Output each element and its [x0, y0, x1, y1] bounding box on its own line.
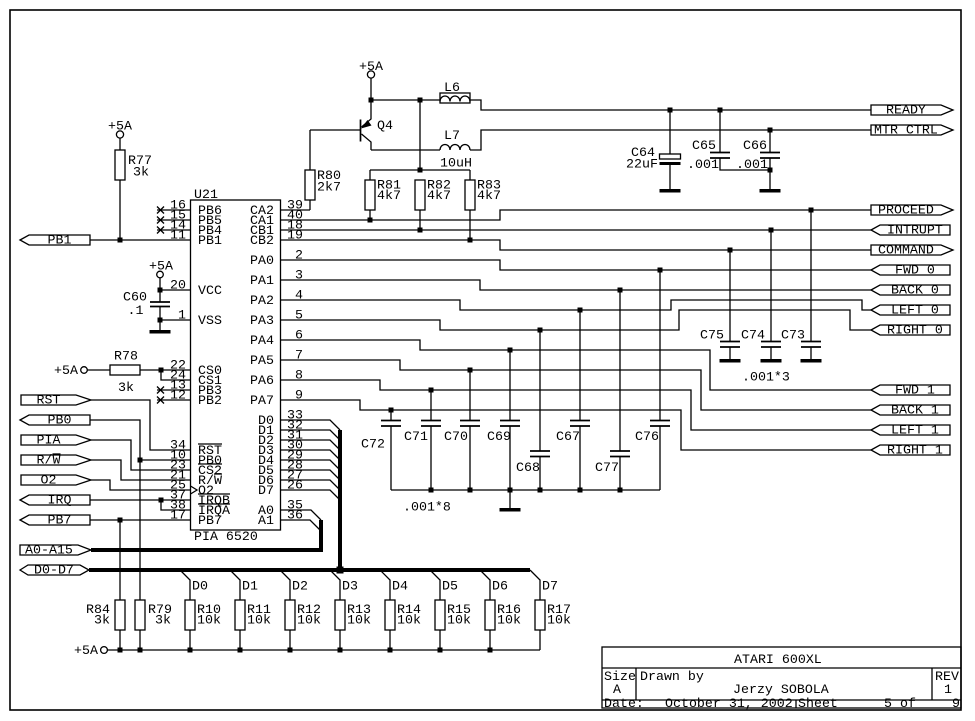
svg-text:PB2: PB2 [198, 393, 222, 408]
svg-text:.001*3: .001*3 [742, 370, 790, 385]
svg-text:9: 9 [952, 696, 960, 711]
svg-text:Date:: Date: [604, 696, 644, 711]
svg-text:17: 17 [170, 508, 186, 523]
svg-text:5: 5 [295, 308, 303, 323]
svg-text:FWD 0: FWD 0 [895, 263, 935, 278]
svg-text:A: A [613, 682, 621, 697]
flag PROCEED [871, 203, 953, 218]
svg-text:2: 2 [295, 248, 303, 263]
svg-text:ATARI 600XL: ATARI 600XL [734, 652, 822, 667]
svg-text:C75: C75 [700, 328, 724, 343]
wire IRQ to pin37 pin38 [90, 498, 191, 511]
svg-text:4k7: 4k7 [377, 188, 401, 203]
svg-text:U21: U21 [194, 187, 218, 202]
wire R78 to CS0 pin22 and CS1 pin24 [140, 368, 191, 381]
svg-text:+5A: +5A [359, 59, 383, 74]
flag RIGHT 0 [871, 323, 950, 338]
U21 left pin names and numbers [170, 198, 230, 529]
wire D7 pin26 to bus [281, 490, 341, 500]
svg-text:RIGHT 0: RIGHT 0 [887, 323, 943, 338]
ground C73 [801, 359, 822, 363]
wire L7 to MTR CTRL [470, 130, 871, 150]
svg-text:C71: C71 [404, 429, 428, 444]
svg-text:PA3: PA3 [250, 313, 274, 328]
svg-text:1: 1 [178, 308, 186, 323]
capacitor C65 [687, 108, 770, 173]
svg-text:C66: C66 [743, 138, 767, 153]
svg-text:LEFT 0: LEFT 0 [891, 303, 939, 318]
svg-text:R/W: R/W [37, 453, 61, 468]
wire PA0 pin2 to FWD 0 [281, 260, 872, 273]
wire O2 to pin25 [91, 480, 191, 490]
wire D4 pin29 to bus [281, 460, 341, 470]
wire pin19 CB2 to COMMAND [281, 238, 872, 253]
wire A0 pin35 to bus [281, 510, 322, 520]
wire D6 pin27 to bus [281, 480, 341, 490]
svg-text:D5: D5 [442, 579, 458, 594]
svg-text:10k: 10k [547, 613, 571, 628]
svg-text:R78: R78 [114, 349, 138, 364]
svg-text:36: 36 [287, 508, 303, 523]
svg-text:3k: 3k [94, 613, 110, 628]
svg-text:3k: 3k [118, 380, 134, 395]
svg-text:8: 8 [295, 368, 303, 383]
transistor Q4 [361, 100, 393, 150]
svg-text:12: 12 [170, 388, 186, 403]
capacitor C69 [487, 350, 520, 490]
svg-text:RIGHT 1: RIGHT 1 [887, 443, 943, 458]
flag READY [871, 103, 953, 118]
svg-text:PIA 6520: PIA 6520 [194, 529, 258, 544]
svg-text:C69: C69 [487, 429, 511, 444]
capacitor C64 [626, 108, 681, 190]
svg-text:D7: D7 [542, 579, 558, 594]
svg-text:L7: L7 [444, 128, 460, 143]
wire Q4 collector to L7 [371, 149, 440, 151]
svg-text:PA1: PA1 [250, 273, 274, 288]
no-connect pins 13 12 [157, 387, 191, 404]
wire RST to pin34 [91, 400, 191, 450]
wire D0 pin33 to bus [281, 420, 341, 430]
capacitor C77 [595, 290, 630, 490]
svg-text:.001: .001 [736, 157, 768, 172]
svg-text:C68: C68 [516, 460, 540, 475]
wire VCC pin20 [158, 288, 191, 293]
svg-text:BACK 1: BACK 1 [891, 403, 939, 418]
capacitor C68 [516, 330, 550, 490]
svg-text:10k: 10k [197, 613, 221, 628]
svg-text:4k7: 4k7 [477, 188, 501, 203]
ground cap bank [500, 490, 521, 512]
svg-text:VCC: VCC [198, 283, 222, 298]
flag R/W [21, 453, 91, 468]
wire D1 pin32 to bus [281, 430, 341, 440]
svg-text:PA6: PA6 [250, 373, 274, 388]
flag PIA [21, 433, 91, 448]
wire L6 to READY [470, 100, 871, 110]
svg-text:INTRUPT: INTRUPT [887, 223, 943, 238]
svg-text:D0-D7: D0-D7 [34, 563, 74, 578]
svg-text:PA4: PA4 [250, 333, 274, 348]
wire PA2 pin4 to LEFT 0 [281, 300, 872, 313]
flag MTR CTRL [871, 123, 953, 138]
svg-text:C67: C67 [556, 429, 580, 444]
svg-text:22uF: 22uF [626, 157, 658, 172]
wire PIA to pin23 [91, 440, 191, 470]
flag LEFT 1 [871, 423, 950, 438]
flag PB7 [20, 513, 90, 528]
svg-text:LEFT 1: LEFT 1 [891, 423, 939, 438]
resistor R80 [305, 130, 341, 210]
title block [602, 647, 961, 711]
resistor R12 (D2 pulldown) [280, 570, 321, 650]
flag RIGHT 1 [871, 443, 950, 458]
svg-text:PB1: PB1 [198, 233, 222, 248]
flag D0-D7 [20, 563, 89, 578]
svg-text:PB0: PB0 [48, 413, 72, 428]
capacitor C72 [361, 410, 401, 490]
resistor R82 [415, 178, 451, 231]
svg-text:BACK 0: BACK 0 [891, 283, 939, 298]
power +5A (R78) [54, 363, 110, 378]
svg-text:4: 4 [295, 288, 303, 303]
resistor R77 [115, 150, 152, 240]
op-amp U21 PIA 6520 chip body [191, 187, 281, 544]
wire PA4 pin6 to FWD 1 [281, 340, 872, 390]
power +5A (top, Q4 supply) [359, 59, 383, 98]
flag A0-A15 [20, 543, 91, 558]
svg-text:Sheet: Sheet [798, 696, 838, 711]
svg-text:C72: C72 [361, 437, 385, 452]
flag FWD 1 [871, 383, 950, 398]
inductor L6 [440, 80, 470, 103]
svg-text:2k7: 2k7 [317, 180, 341, 195]
svg-text:D4: D4 [392, 579, 408, 594]
svg-text:C77: C77 [595, 460, 619, 475]
flag O2 [21, 473, 91, 488]
resistor R84 [86, 600, 125, 650]
flag PB1 [20, 233, 90, 248]
svg-text:+5A: +5A [74, 643, 98, 658]
capacitor C76 [635, 270, 670, 490]
svg-text:10k: 10k [347, 613, 371, 628]
svg-text:3: 3 [295, 268, 303, 283]
ground C75 [720, 359, 741, 363]
flag COMMAND [871, 243, 953, 258]
svg-text:D0: D0 [192, 579, 208, 594]
svg-text:D2: D2 [292, 579, 308, 594]
inductor L7 [440, 128, 472, 171]
svg-text:PB7: PB7 [198, 513, 222, 528]
power +5A (bottom rail) [74, 643, 107, 658]
capacitor C73 [781, 210, 821, 359]
svg-text:PROCEED: PROCEED [878, 203, 934, 218]
capacitor C66 [736, 128, 780, 190]
svg-text:.001: .001 [687, 157, 719, 172]
svg-text:Drawn by: Drawn by [640, 669, 704, 684]
svg-text:1: 1 [944, 682, 952, 697]
svg-text:MTR CTRL: MTR CTRL [874, 123, 938, 138]
svg-text:C70: C70 [444, 429, 468, 444]
svg-text:4k7: 4k7 [427, 188, 451, 203]
capacitor C74 [741, 230, 781, 359]
svg-text:PA7: PA7 [250, 393, 274, 408]
node B junction [418, 98, 423, 103]
wire Q4 base [310, 129, 361, 131]
flag LEFT 0 [871, 303, 950, 318]
svg-text:October 31, 2002: October 31, 2002 [665, 696, 793, 711]
svg-text:11: 11 [170, 228, 186, 243]
wire D5 pin28 to bus [281, 470, 341, 480]
svg-text:10k: 10k [247, 613, 271, 628]
svg-text:L6: L6 [444, 80, 460, 95]
svg-text:O2: O2 [41, 473, 57, 488]
resistor R14 (D4 pulldown) [380, 570, 421, 650]
svg-text:7: 7 [295, 348, 303, 363]
resistor R16 (D6 pulldown) [480, 570, 521, 650]
svg-text:9: 9 [295, 388, 303, 403]
flag RST [21, 393, 91, 408]
svg-text:IRQ: IRQ [48, 493, 72, 508]
flag INTRUPT [871, 223, 950, 238]
wire node A to L6 [371, 99, 440, 101]
resistor R83 [465, 170, 501, 240]
resistor R13 (D3 pulldown) [330, 570, 371, 650]
power +5A (R77) [108, 119, 132, 151]
svg-text:.1: .1 [128, 303, 144, 318]
wire PA5 pin7 to BACK 1 [281, 360, 872, 410]
svg-text:20: 20 [170, 278, 186, 293]
resistor R11 (D1 pulldown) [230, 570, 271, 650]
wire pin39 CA2 to R80 [281, 209, 311, 211]
svg-text:FWD 1: FWD 1 [895, 383, 935, 398]
label .001*3 [742, 370, 790, 385]
resistor R10 (D0 pulldown) [180, 570, 221, 650]
capacitor C70 [444, 370, 480, 490]
ground C60 [150, 320, 171, 334]
bus D0-D7 [89, 430, 530, 574]
svg-text:+5A: +5A [54, 363, 78, 378]
svg-text:3k: 3k [133, 165, 149, 180]
svg-text:3k: 3k [155, 613, 171, 628]
svg-text:C74: C74 [741, 328, 765, 343]
svg-text:D1: D1 [242, 579, 258, 594]
resistor R15 (D5 pulldown) [430, 570, 471, 650]
svg-text:10k: 10k [497, 613, 521, 628]
resistor R17 (D7 pulldown) [530, 570, 571, 650]
svg-text:6: 6 [295, 328, 303, 343]
svg-text:A0-A15: A0-A15 [25, 543, 73, 558]
svg-text:10k: 10k [297, 613, 321, 628]
U21 right pin names and numbers [250, 198, 303, 529]
svg-text:PIA: PIA [37, 433, 61, 448]
wire PB1 to pin11 [90, 238, 191, 243]
svg-text:PB7: PB7 [48, 513, 72, 528]
no-connect pins 16 15 14 [157, 207, 191, 234]
flag FWD 0 [871, 263, 950, 278]
svg-text:Q4: Q4 [377, 118, 393, 133]
wire A1 pin36 to bus [281, 520, 321, 530]
wire pin18 CB1 to INTRUPT [281, 228, 872, 233]
resistor R78 [110, 349, 140, 396]
flag PB0 [20, 413, 90, 428]
svg-text:VSS: VSS [198, 313, 222, 328]
bus A0-A15 [91, 520, 321, 550]
capacitor C60 [123, 290, 170, 321]
capacitor C71 [404, 390, 441, 490]
svg-text:PA5: PA5 [250, 353, 274, 368]
wire node B down to R rail [419, 100, 421, 170]
wire bottom +5A rail [108, 648, 541, 653]
ground C74 [761, 359, 782, 363]
wire D2 pin31 to bus [281, 440, 341, 450]
wire PB7 to pin17 [90, 518, 191, 601]
svg-text:19: 19 [287, 228, 303, 243]
svg-text:C65: C65 [692, 138, 716, 153]
flag BACK 0 [871, 283, 950, 298]
svg-text:10uH: 10uH [440, 156, 472, 171]
svg-text:C73: C73 [781, 328, 805, 343]
wire cap bank ground rail [391, 488, 660, 515]
svg-text:PA0: PA0 [250, 253, 274, 268]
svg-text:READY: READY [886, 103, 926, 118]
wire VSS pin1 [158, 318, 191, 323]
svg-text:10k: 10k [447, 613, 471, 628]
svg-text:D3: D3 [342, 579, 358, 594]
capacitor C75 [700, 250, 740, 359]
ground C64 [660, 189, 681, 193]
wire R/W to pin21 [91, 460, 191, 480]
svg-text:COMMAND: COMMAND [878, 243, 934, 258]
resistor R81 [365, 170, 401, 220]
wire PA3 pin5 to RIGHT 0 [281, 310, 872, 333]
capacitor C67 [556, 310, 590, 490]
flag BACK 1 [871, 403, 950, 418]
wire pin40 CA1 to PROCEED [281, 208, 872, 223]
wire PA1 pin3 to BACK 0 [281, 280, 872, 293]
resistor R79 [135, 600, 172, 650]
svg-text:5 of: 5 of [884, 696, 916, 711]
svg-text:D6: D6 [492, 579, 508, 594]
svg-text:C76: C76 [635, 429, 659, 444]
svg-text:CB2: CB2 [250, 233, 274, 248]
flag IRQ [20, 493, 90, 508]
svg-text:A1: A1 [258, 513, 274, 528]
svg-text:Jerzy SOBOLA: Jerzy SOBOLA [733, 682, 829, 697]
svg-text:RST: RST [37, 393, 61, 408]
node A junction [369, 98, 374, 103]
svg-text:D7: D7 [258, 483, 274, 498]
wire PA7 pin9 to RIGHT 1 [281, 400, 872, 450]
svg-text:PB1: PB1 [48, 233, 72, 248]
wire rail to R81 R82 R83 [370, 168, 470, 173]
svg-text:.001*8: .001*8 [403, 500, 451, 515]
wire D3 pin30 to bus [281, 450, 341, 460]
power +5A (VCC) [149, 259, 173, 291]
svg-text:PA2: PA2 [250, 293, 274, 308]
ground C65 C66 [760, 189, 781, 193]
wire PB0 to pin10 [90, 420, 191, 600]
wire PA6 pin8 to LEFT 1 [281, 380, 872, 430]
svg-text:10k: 10k [397, 613, 421, 628]
svg-text:26: 26 [287, 478, 303, 493]
